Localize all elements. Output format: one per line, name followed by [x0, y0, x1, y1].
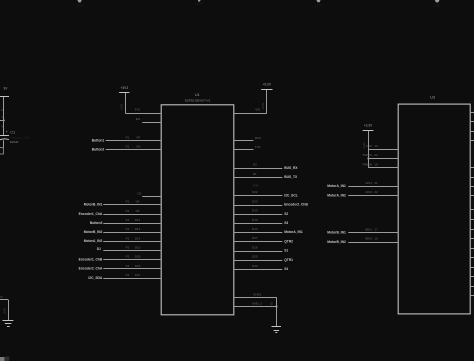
svg-text:D13: D13 — [135, 227, 141, 231]
svg-text:D22: D22 — [252, 190, 258, 194]
svg-text:21: 21 — [374, 181, 378, 185]
svg-text:D3: D3 — [253, 163, 257, 167]
svg-text:Encoder1_ChB: Encoder1_ChB — [79, 258, 103, 262]
svg-text:PWMA: PWMA — [363, 153, 372, 157]
svg-text:P1: P1 — [126, 209, 130, 213]
svg-text:D33: D33 — [252, 264, 258, 268]
svg-text:+3.3V: +3.3V — [315, 3, 323, 7]
svg-text:GND1: GND1 — [253, 292, 262, 296]
svg-text:MotorB_IN1: MotorB_IN1 — [327, 231, 346, 235]
svg-text:GND: GND — [3, 308, 7, 314]
svg-text:+3V3: +3V3 — [119, 103, 123, 110]
svg-text:D25: D25 — [252, 255, 258, 259]
svg-text:MotorA_IN1: MotorA_IN1 — [284, 230, 303, 234]
svg-text:D12: D12 — [135, 218, 141, 222]
svg-text:P1: P1 — [126, 245, 130, 249]
svg-text:+5.0V: +5.0V — [261, 102, 265, 109]
svg-text:U1: U1 — [195, 93, 200, 97]
svg-text:D19: D19 — [135, 264, 141, 268]
svg-text:VIN: VIN — [255, 108, 260, 112]
svg-text:D18: D18 — [135, 255, 141, 259]
svg-text:BUS_RX: BUS_RX — [284, 166, 298, 170]
svg-text:QTR2: QTR2 — [284, 239, 293, 243]
svg-text:17: 17 — [374, 227, 378, 231]
svg-text:D27: D27 — [252, 236, 258, 240]
svg-text:D35: D35 — [253, 183, 259, 187]
svg-text:Button3: Button3 — [90, 221, 103, 225]
svg-text:+3V3: +3V3 — [121, 86, 129, 90]
svg-text:13: 13 — [374, 144, 378, 148]
svg-text:D12: D12 — [252, 218, 258, 222]
svg-text:MotorB_IN2: MotorB_IN2 — [327, 240, 346, 244]
svg-text:D23: D23 — [252, 199, 258, 203]
svg-text:D2: D2 — [137, 192, 141, 196]
svg-text:RX0: RX0 — [255, 136, 261, 140]
svg-text:D4: D4 — [136, 200, 140, 204]
svg-text:D13: D13 — [252, 209, 258, 213]
svg-text:P1: P1 — [126, 227, 130, 231]
svg-text:TX0: TX0 — [255, 145, 261, 149]
svg-text:S1: S1 — [284, 249, 288, 253]
svg-text:MotorA_IN1: MotorA_IN1 — [327, 184, 346, 188]
svg-text:EN: EN — [136, 117, 140, 121]
svg-text:BUS_TX: BUS_TX — [284, 175, 298, 179]
svg-text:C1: C1 — [10, 131, 15, 135]
svg-text:P1: P1 — [126, 236, 130, 240]
svg-text:+5.0V: +5.0V — [195, 2, 203, 6]
svg-text:AIN2: AIN2 — [365, 190, 372, 194]
svg-text:P1: P1 — [126, 218, 130, 222]
svg-text:3V3: 3V3 — [135, 108, 141, 112]
svg-text:AIN1: AIN1 — [365, 181, 372, 185]
svg-text:MotorA_IN2: MotorA_IN2 — [84, 239, 103, 243]
svg-text:S2: S2 — [284, 212, 288, 216]
svg-text:19: 19 — [374, 163, 378, 167]
svg-text:100uF: 100uF — [10, 140, 19, 144]
svg-text:+3.3V: +3.3V — [76, 4, 84, 8]
svg-text:Capacitor_Tant: Capacitor_Tant — [10, 136, 30, 140]
svg-text:D1: D1 — [97, 247, 101, 251]
svg-text:D14: D14 — [252, 227, 258, 231]
svg-text:MotorB_IN2: MotorB_IN2 — [84, 230, 103, 234]
svg-text:D15: D15 — [135, 245, 141, 249]
svg-text:VN: VN — [136, 145, 140, 149]
svg-text:22: 22 — [374, 190, 378, 194]
svg-text:U3: U3 — [430, 96, 435, 100]
svg-text:QTR1: QTR1 — [284, 258, 293, 262]
svg-text:BIN1: BIN1 — [365, 227, 372, 231]
svg-text:GND: GND — [270, 302, 274, 308]
svg-text:MotorB_IN1: MotorB_IN1 — [84, 203, 103, 207]
svg-text:PWMB: PWMB — [363, 163, 372, 167]
svg-text:D26: D26 — [252, 245, 258, 249]
svg-text:GND_2: GND_2 — [252, 302, 262, 306]
svg-text:23: 23 — [374, 153, 378, 157]
svg-text:K: K — [1, 125, 3, 129]
svg-text:P1: P1 — [126, 145, 130, 149]
svg-text:BIN2: BIN2 — [365, 237, 372, 241]
svg-text:P1: P1 — [126, 200, 130, 204]
svg-text:P1: P1 — [126, 273, 130, 277]
svg-text:Encoder2_ChA: Encoder2_ChA — [79, 267, 103, 271]
svg-text:Button2: Button2 — [92, 148, 105, 152]
svg-text:S3: S3 — [284, 221, 288, 225]
svg-text:P1: P1 — [126, 136, 130, 140]
svg-text:+3.3V: +3.3V — [364, 124, 373, 128]
svg-text:D5: D5 — [136, 209, 140, 213]
svg-text:ESP32-DEVKIT-V1: ESP32-DEVKIT-V1 — [185, 98, 211, 102]
svg-text:D1: D1 — [253, 172, 257, 176]
svg-text:P1: P1 — [126, 255, 130, 259]
svg-text:+5.0V: +5.0V — [433, 4, 441, 8]
svg-text:D14: D14 — [135, 236, 141, 240]
svg-text:VP: VP — [136, 136, 140, 140]
svg-text:3.3V: 3.3V — [366, 144, 372, 148]
svg-text:P1: P1 — [126, 264, 130, 268]
svg-text:I2C_SDA: I2C_SDA — [88, 276, 103, 280]
svg-text:D21: D21 — [135, 273, 141, 277]
svg-text:16: 16 — [374, 237, 378, 241]
svg-text:S4: S4 — [284, 267, 288, 271]
svg-text:MotorA_IN2: MotorA_IN2 — [327, 193, 346, 197]
svg-text:Encoder1_ChA: Encoder1_ChA — [79, 212, 103, 216]
svg-text:+5.0V: +5.0V — [263, 83, 272, 87]
svg-text:I2C_SCL: I2C_SCL — [284, 193, 298, 197]
svg-text:Encoder2_ChB: Encoder2_ChB — [284, 203, 308, 207]
svg-text:Button1: Button1 — [92, 138, 105, 142]
